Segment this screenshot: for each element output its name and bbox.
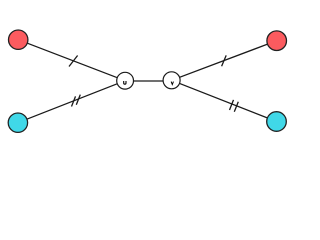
tick: single slash on edge red-TL/u <box>69 56 78 67</box>
node cyan bottom-right <box>267 112 287 132</box>
node u <box>117 72 134 89</box>
node red top-right <box>267 31 287 51</box>
wire: edge u to v <box>125 80 172 82</box>
node cyan bottom-left <box>8 113 27 132</box>
tick: single slash on edge v/red-TR <box>222 55 227 66</box>
label u <box>124 81 126 84</box>
label v <box>171 82 173 85</box>
wire: edge v to cyan-BR <box>172 80 277 121</box>
wire: edge red-TL to u <box>18 40 125 81</box>
wire: edge cyan-BL to u <box>18 81 125 123</box>
tick: double slash on edge v/cyan-BR <box>230 100 239 112</box>
graph diagram: K4-like matching gadget with nodes u,v <box>0 0 299 168</box>
tick: double slash on edge cyan-BL/u <box>72 95 81 107</box>
node red top-left <box>9 30 28 49</box>
wire: edge v to red-TR <box>172 41 277 81</box>
node v <box>163 72 180 89</box>
